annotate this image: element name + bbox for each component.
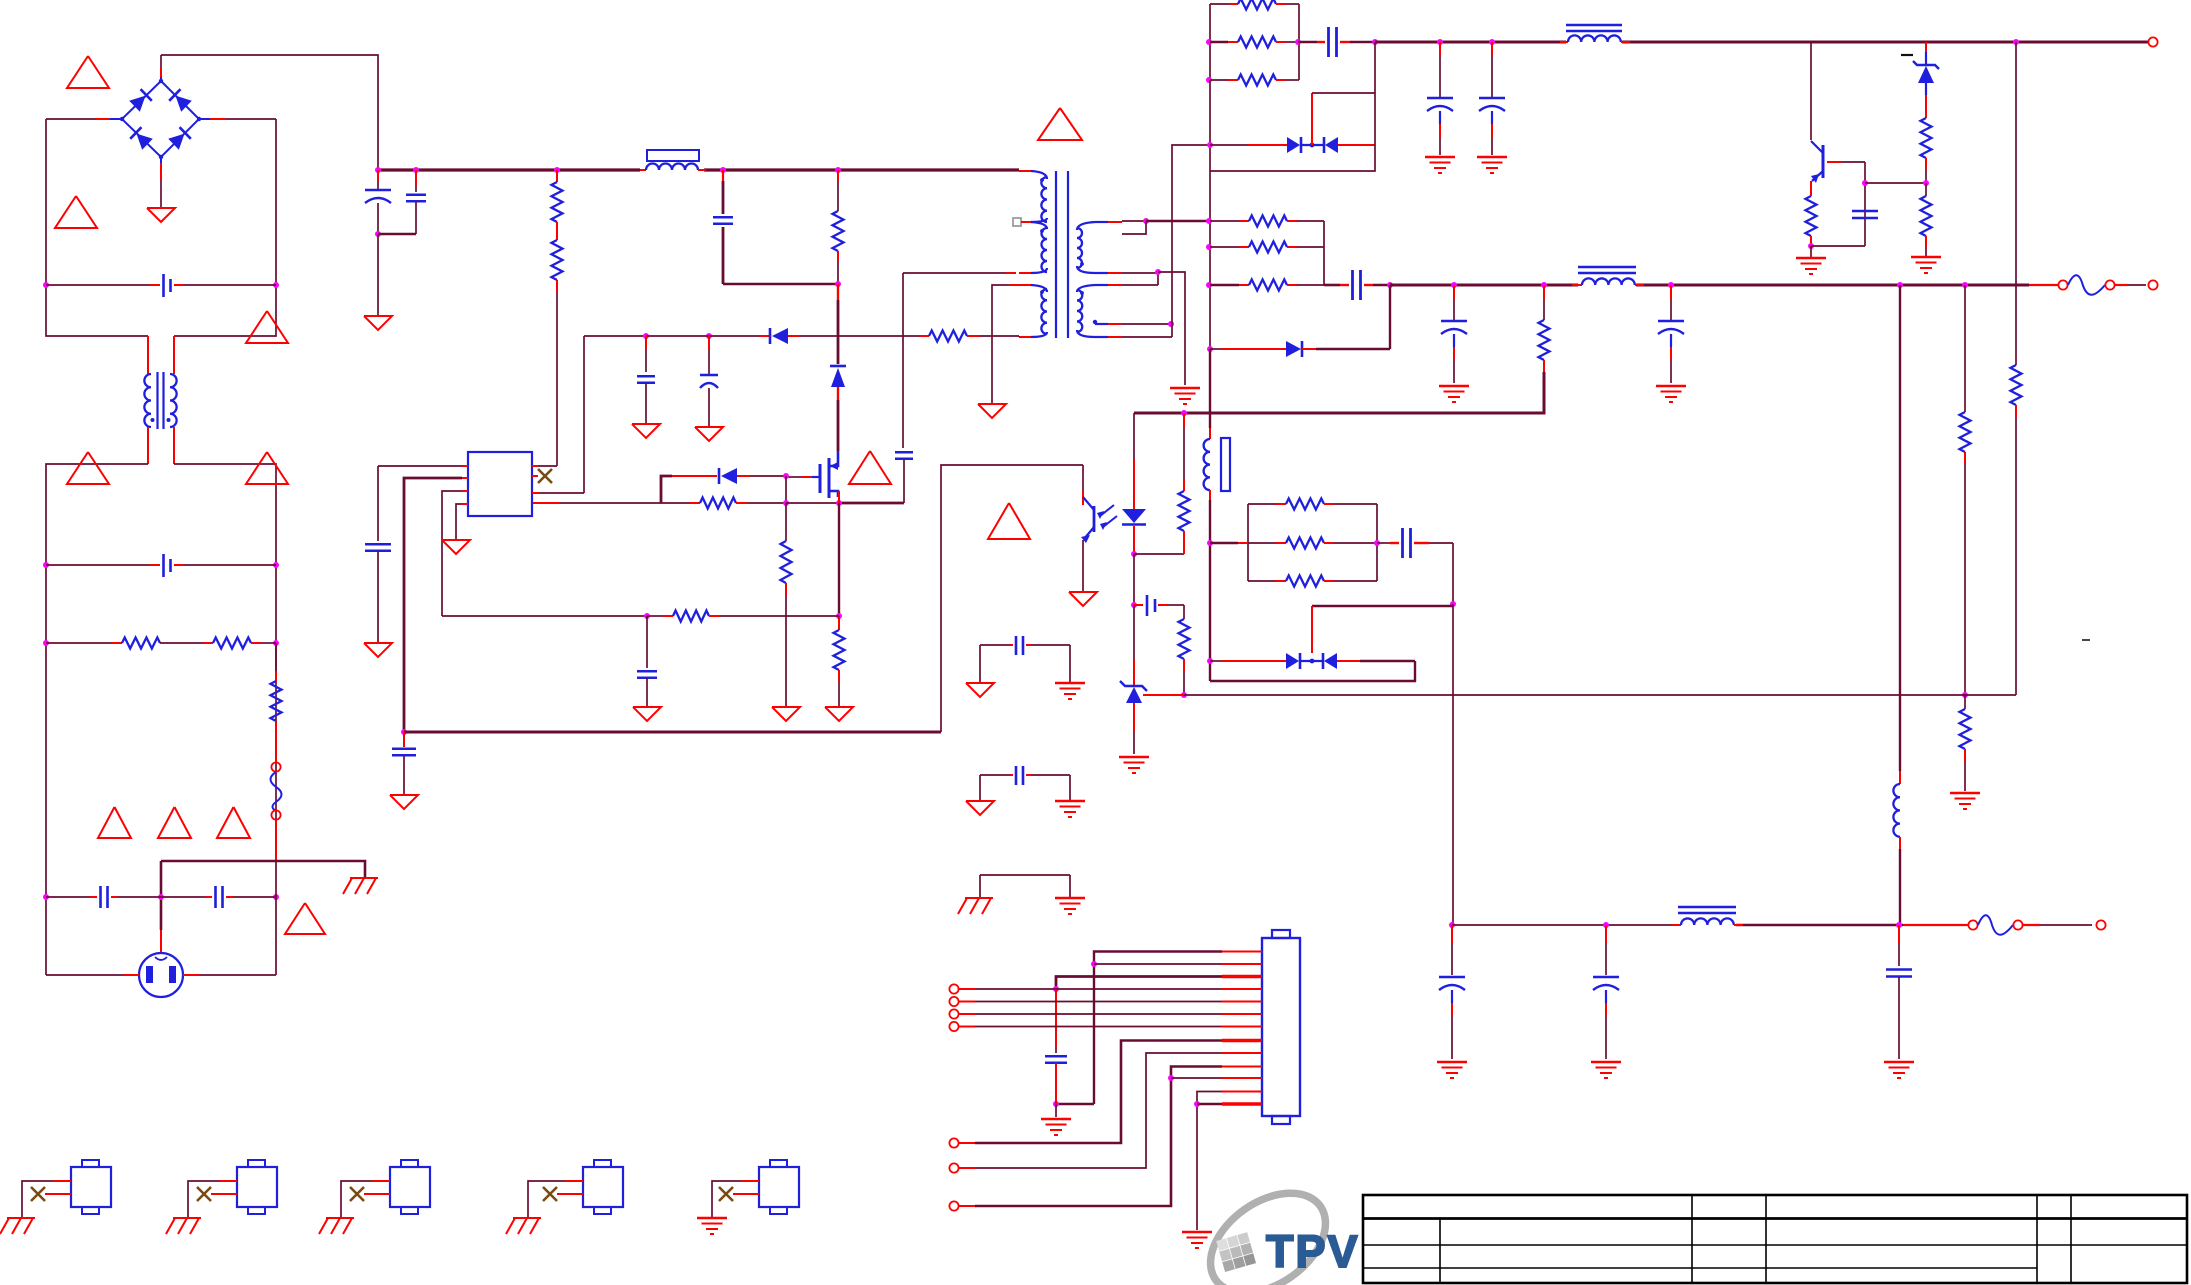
- diode D6 opto LED: [1122, 509, 1146, 523]
- transformer LF1 common-mode choke: [147, 336, 149, 374]
- wire base network: [1827, 161, 1842, 163]
- wire left rail upper: [46, 119, 148, 336]
- diode D4 dual clamp: [1210, 144, 1248, 146]
- transformer T1 secondary winding1: [1077, 222, 1095, 230]
- node aux cap1: [643, 333, 649, 339]
- wire output2 rail: [1390, 284, 1578, 287]
- node out2 cap2: [1668, 282, 1674, 288]
- wire U1 pin3 aux sense: [532, 492, 540, 494]
- wire tap to snubber leg: [1122, 323, 1171, 325]
- capacitor C5 fb filter: [646, 616, 648, 668]
- node primary gnd bus: [401, 729, 407, 735]
- node zener divider: [1923, 180, 1929, 186]
- wire pin13 net: [1197, 1103, 1222, 1106]
- jumper W1: [2029, 284, 2058, 286]
- capacitor C9 aux filter electrolytic: [708, 336, 710, 350]
- no-connect X mark U1 pin2: [532, 475, 538, 477]
- resistor R14 emitter: [1806, 196, 1817, 236]
- ground primary GND7: [390, 795, 418, 809]
- resistor R15: [1921, 118, 1932, 158]
- diode D5 rectifier: [1207, 346, 1213, 352]
- node out2 row2 left: [1206, 244, 1212, 250]
- node fb row: [644, 613, 650, 619]
- resistor R3 startup upper: [556, 170, 558, 182]
- wire trio1 right rail: [1298, 4, 1300, 80]
- ground primary GND13: [966, 683, 994, 697]
- node pin11 tie: [1168, 1075, 1174, 1081]
- node out2 cap: [1451, 282, 1457, 288]
- diode Z1 zener: [1925, 42, 1927, 52]
- inductor L3 output2: [1572, 284, 1582, 286]
- logo TPV cube: [1216, 1232, 1256, 1272]
- no-connect X lug: [733, 1193, 759, 1195]
- diode D7 dual: [1207, 658, 1213, 664]
- node trio3 mid left: [1207, 540, 1213, 546]
- wire pin5 net: [959, 1001, 975, 1003]
- terminal out10: [949, 1201, 958, 1210]
- warning triangle 1: [67, 56, 109, 88]
- mounting lug: [237, 1167, 277, 1207]
- node bulk cap junction: [375, 231, 381, 237]
- warning triangle 12: [988, 503, 1030, 539]
- resistor R18: [1210, 220, 1239, 222]
- capacitor CY2: [161, 896, 205, 898]
- capacitor C22 decouple pair1: [980, 644, 1010, 646]
- node gnd cap bottom: [1053, 1101, 1059, 1107]
- ground secondary GNDS2: [1425, 156, 1455, 159]
- mounting lug: [71, 1167, 111, 1207]
- ground secondary GNDS5: [1911, 256, 1941, 259]
- transformer T1 core: [1055, 171, 1057, 338]
- wire output1 rail: [1375, 41, 1566, 44]
- wire U1 pin5: [462, 503, 468, 505]
- ground secondary GNDS9: [1119, 756, 1149, 759]
- wire gnd tie: [980, 874, 1070, 876]
- resistor R1 discharge: [46, 642, 112, 644]
- warning triangle 8: [217, 807, 250, 838]
- optocoupler light arrows: [1100, 505, 1114, 516]
- node trio3 mid right: [1374, 540, 1380, 546]
- wire source sense: [838, 491, 840, 503]
- node gate res: [783, 500, 789, 506]
- wire right rail choke return: [174, 464, 276, 861]
- node snubber-drain: [835, 281, 841, 287]
- transistor Q2: [1822, 145, 1825, 178]
- terminal output2: [2148, 280, 2157, 289]
- capacitor C12 output1: [1491, 42, 1493, 56]
- capacitor C21 output3: [1898, 925, 1900, 943]
- capacitor CY1: [46, 896, 90, 898]
- transformer T1 primary winding: [1019, 170, 1031, 172]
- ground secondary GNDS14: [1055, 800, 1085, 803]
- wire primary gnd bus: [404, 731, 941, 734]
- transformer T1 secondary winding2: [1077, 285, 1095, 292]
- capacitor C18 series: [1377, 542, 1390, 544]
- wire bulk cap bottom: [378, 233, 416, 236]
- warning triangle 2: [55, 196, 97, 228]
- wire bridge AC right: [199, 118, 210, 120]
- wire U1 pin7 GND bus: [462, 477, 468, 479]
- wire bridge minus stem: [160, 157, 162, 163]
- node out1 tap tie: [1143, 218, 1149, 224]
- capacitor C10 series: [1298, 41, 1317, 44]
- resistor R25 fb: [1183, 605, 1185, 619]
- terminal output1: [2147, 41, 2149, 43]
- ground secondary GNDS1: [1170, 387, 1200, 390]
- node out1 cap2: [1489, 39, 1495, 45]
- ground secondary GNDS7: [1656, 385, 1686, 388]
- wire inductor leg: [1209, 349, 1211, 428]
- ground chassis main: [350, 877, 378, 879]
- jumper W2: [1903, 924, 1968, 926]
- wire gate node: [785, 476, 787, 503]
- wire snubber leg: [1172, 145, 1210, 337]
- resistor R26: [1248, 503, 1276, 505]
- node out2 drop1: [1897, 282, 1903, 288]
- node trio1 row2 right: [1295, 39, 1301, 45]
- transformer T1 aux winding: [1031, 222, 1047, 229]
- wire to primary ground: [377, 234, 379, 316]
- wire left rail choke return: [46, 464, 148, 975]
- inductor L4: [1899, 771, 1901, 784]
- node plug top: [158, 894, 164, 900]
- ground chassis lug: [326, 1217, 354, 1219]
- wire fb line: [1143, 694, 1184, 696]
- capacitor C14 series: [1324, 284, 1340, 287]
- ground primary GND12: [1069, 592, 1097, 606]
- wire trio1 left rail: [1209, 4, 1211, 80]
- capacitor C8 aux filter: [645, 336, 647, 350]
- op-amp U1 PWM controller: [468, 452, 532, 516]
- ground primary GND8: [442, 540, 470, 554]
- resistor R9 feedback: [647, 615, 663, 617]
- node sync: [1450, 601, 1456, 607]
- node emitter junction: [1808, 243, 1814, 249]
- bridge rectifier BD1: [122, 81, 199, 157]
- wire opto LED anode: [1133, 413, 1135, 430]
- capacitor CX2: [46, 564, 150, 566]
- wire gnd stem: [1055, 1104, 1057, 1117]
- wire plug left lead: [124, 974, 139, 976]
- wire trio2 right rail: [1323, 221, 1325, 285]
- fuse F1 with terminals: [271, 762, 280, 771]
- wire trio3 rails: [1247, 504, 1249, 581]
- resistor R22: [1960, 412, 1971, 452]
- resistor R28: [1248, 580, 1276, 582]
- capacitor C19 output3: [1451, 925, 1453, 943]
- resistor R17: [2011, 365, 2022, 405]
- diode D3 aux: [760, 335, 770, 337]
- node trio1 row3 left: [1206, 77, 1212, 83]
- terminal sense4: [949, 1022, 958, 1031]
- ground primary GND10: [695, 427, 723, 441]
- wire U1 pin1 to startup: [532, 465, 538, 467]
- ground secondary GNDS12: [1884, 1061, 1914, 1064]
- resistor RT1 inrush NTC: [275, 643, 277, 671]
- node bus snubber cap: [720, 167, 726, 173]
- no-connect X lug: [364, 1193, 390, 1195]
- wire secondary leg: [1209, 171, 1211, 349]
- diode D1 clamp: [837, 284, 839, 300]
- wire clamp loop: [1210, 42, 1375, 171]
- node left rail row1: [43, 282, 49, 288]
- ground secondary GNDS6: [1439, 385, 1469, 388]
- node bus cap2: [413, 167, 419, 173]
- wire sync vertical: [1452, 604, 1454, 925]
- resistor R2 discharge: [204, 642, 213, 644]
- capacitor C2: [415, 170, 417, 186]
- wire snubber leg down: [1209, 80, 1211, 171]
- capacitor C4 aux: [902, 273, 904, 380]
- ground secondary GNDS13: [1055, 682, 1085, 685]
- wire out2 drop1: [1899, 285, 1901, 771]
- wire pin12 net: [1197, 1092, 1222, 1231]
- wire pin2 net: [1094, 963, 1222, 965]
- no-connect X lug: [45, 1193, 71, 1195]
- ground primary GND2: [364, 316, 392, 330]
- wire earth link: [161, 861, 365, 878]
- wire lug pin1: [372, 1180, 390, 1182]
- node pin2 tie: [1091, 961, 1097, 967]
- ground secondary GNDS16: [1041, 1118, 1071, 1121]
- connector J2 body: [1262, 938, 1300, 1116]
- wire lug pin1: [741, 1180, 759, 1182]
- transformer T1 secondary tap: [1093, 320, 1097, 324]
- ground secondary GNDS8: [1950, 792, 1980, 795]
- resistor R7 gate pulldown: [785, 503, 787, 541]
- polarity dash: [1901, 54, 1913, 56]
- ground chassis lug: [513, 1217, 541, 1219]
- capacitor C3 snubber: [722, 170, 724, 181]
- terminal out8: [949, 1138, 958, 1147]
- node right rail row4: [273, 894, 279, 900]
- wire out2 drop2: [1964, 285, 1966, 412]
- transformer T1 pin square: [1013, 218, 1021, 226]
- wire pin10 net: [975, 1067, 1222, 1207]
- wire lug pin1: [219, 1180, 237, 1182]
- wire LED cathode row: [1134, 553, 1184, 555]
- node left rail row4: [43, 894, 49, 900]
- resistor R10 aux: [919, 335, 929, 337]
- node out1 cap1: [1437, 39, 1443, 45]
- wire bleeder to fb bus: [1134, 372, 1544, 413]
- node gate row: [783, 473, 789, 479]
- node bus resistor stack: [554, 167, 560, 173]
- capacitor C23 decouple pair2: [980, 774, 1010, 776]
- node bus cap1: [375, 167, 381, 173]
- node pin4 tie: [1053, 986, 1059, 992]
- diode D2 gate: [661, 476, 672, 503]
- wire cap to sync node: [1452, 543, 1454, 604]
- ground primary GND11: [978, 404, 1006, 418]
- wire pin8 net: [975, 1041, 1222, 1144]
- inductor L5 with core: [1209, 428, 1211, 439]
- node rail1 sense: [2013, 39, 2019, 45]
- wire pin1 net: [1094, 952, 1222, 1105]
- node rail3 start: [1449, 922, 1455, 928]
- optocoupler U2 transistor: [941, 465, 1083, 732]
- wire aux row: [442, 615, 647, 617]
- resistor R16: [1925, 183, 1927, 196]
- node rail3 cap2: [1603, 922, 1609, 928]
- node right rail row2: [273, 562, 279, 568]
- wire U1 pin6 comp: [462, 490, 468, 492]
- node base divider: [1862, 180, 1868, 186]
- resistor R23: [1964, 695, 1966, 709]
- capacitor C6 vcc: [365, 543, 391, 546]
- resistor R24 LED bias: [1183, 413, 1185, 428]
- ground secondary GNDS17: [1182, 1231, 1212, 1234]
- connector J1 AC plug: [139, 953, 183, 997]
- warning triangle 9: [285, 903, 325, 934]
- polarity dash small: [2082, 639, 2090, 641]
- warning triangle 6: [98, 807, 131, 838]
- ground primary GND3: [772, 707, 800, 721]
- wire pin9 net: [975, 1053, 1222, 1168]
- wire base to zener node: [1865, 182, 1926, 184]
- wire startup to IC: [556, 291, 558, 466]
- capacitor CX1 line filter: [46, 284, 150, 286]
- wire sync bus: [1312, 605, 1453, 608]
- svg-text:TPV: TPV: [1266, 1226, 1360, 1277]
- ground secondary GNDS4: [1810, 246, 1812, 258]
- node left rail row3: [43, 640, 49, 646]
- wire plug right lead: [183, 974, 199, 976]
- resistor R8 sense: [838, 616, 840, 630]
- resistor R11: [1210, 3, 1238, 5]
- terminal output3: [2096, 920, 2105, 929]
- wire base cap return: [1811, 245, 1865, 247]
- wire output3 rail: [1452, 924, 1678, 926]
- wire bridge AC left: [110, 118, 122, 120]
- node sense row: [836, 613, 842, 619]
- no-connect X lug: [557, 1193, 583, 1195]
- warning triangle 5: [246, 452, 288, 484]
- capacitor C7: [403, 732, 405, 747]
- resistor R27: [1210, 542, 1238, 545]
- node fb bus: [1181, 410, 1187, 416]
- wire pin4 net: [959, 988, 975, 990]
- ground primary GND9: [632, 424, 660, 438]
- node out1 filter: [1372, 39, 1378, 45]
- wire HV bus: [378, 168, 640, 171]
- node trio1 row2 left: [1206, 39, 1212, 45]
- wire pin7 net: [959, 1026, 975, 1028]
- ground primary GND14: [966, 801, 994, 815]
- wire out1 tap tie: [1122, 221, 1146, 234]
- capacitor C20 output3: [1605, 925, 1607, 943]
- node tap junction: [1168, 321, 1174, 327]
- node right rail row1: [273, 282, 279, 288]
- terminal sense2: [949, 997, 958, 1006]
- capacitor C1 bulk electrolytic: [377, 170, 379, 182]
- node out2 filter: [1387, 282, 1393, 288]
- node LED cathode: [1131, 551, 1137, 557]
- wire rectifier up: [1389, 285, 1391, 349]
- inductor L1 bus filter: [640, 169, 646, 171]
- wire primary winding2 top: [1009, 284, 1019, 286]
- no-connect X lug: [211, 1193, 237, 1195]
- wire U1 pin8 VCC: [462, 465, 468, 467]
- ground chassis tie: [965, 897, 993, 899]
- wire pin6 net: [959, 1013, 975, 1015]
- wire secondary out1: [1122, 220, 1146, 222]
- wire plug top lead: [160, 861, 163, 930]
- ground secondary GNDS3: [1477, 156, 1507, 159]
- wire collector drop: [1810, 42, 1812, 140]
- node bus snubber res: [835, 167, 841, 173]
- node pin13 tie: [1194, 1101, 1200, 1107]
- capacitor C17 fb: [1133, 554, 1135, 605]
- title block table: [1363, 1195, 2187, 1283]
- warning triangle 11: [849, 451, 891, 484]
- wire pin3 net: [1056, 977, 1222, 990]
- wire right rail upper: [174, 119, 276, 336]
- resistor R21 bleeder: [1543, 285, 1545, 299]
- logo TPV swoosh: [1192, 1173, 1344, 1285]
- node out2 row1 left: [1206, 218, 1212, 224]
- wire pin11 net: [1171, 1077, 1222, 1079]
- connector J2 pins: [1222, 951, 1262, 953]
- warning triangle 10: [1038, 108, 1082, 140]
- transformer T1 primary winding2: [1019, 284, 1031, 286]
- capacitor C16 output2: [1670, 285, 1672, 299]
- node snubber row: [1207, 142, 1213, 148]
- node rail3 cap3: [1896, 922, 1902, 928]
- ground chassis lug: [7, 1217, 35, 1219]
- ground primary GND6: [364, 643, 392, 657]
- wire pin1 bottom: [1056, 1103, 1094, 1105]
- node left rail row2: [43, 562, 49, 568]
- wire dual diode loop: [1210, 661, 1415, 681]
- ground chassis lug: [173, 1217, 201, 1219]
- wire sense divider top: [2015, 42, 2017, 365]
- warning triangle 7: [158, 807, 191, 838]
- wire aux row mid: [646, 335, 709, 337]
- node out2 res: [1541, 282, 1547, 288]
- node secondary return: [1155, 269, 1161, 275]
- capacitor C15 output2: [1453, 285, 1455, 299]
- wire winding2 bottom: [1122, 336, 1172, 338]
- node aux cap2: [706, 333, 712, 339]
- wire snubber bottom: [723, 283, 838, 286]
- node out2 drop2: [1962, 282, 1968, 288]
- resistor R4 startup lower: [552, 240, 563, 280]
- inductor L6 output3: [1672, 924, 1681, 926]
- capacitor C11 output1: [1439, 42, 1441, 56]
- terminal sense1: [949, 984, 958, 993]
- warning triangle 4: [67, 452, 109, 484]
- resistor R20: [1210, 284, 1239, 287]
- ground secondary lug: [697, 1217, 727, 1220]
- resistor R12: [1210, 41, 1228, 44]
- wire AC line from bridge + to bus corner: [161, 55, 378, 170]
- wire sync drop: [1311, 606, 1313, 653]
- node fb line drop2: [1962, 692, 1968, 698]
- diode Z2 shunt regulator: [1133, 605, 1135, 640]
- node right rail row3: [273, 640, 279, 646]
- wire lug pin1: [53, 1180, 71, 1182]
- mounting lug: [759, 1167, 799, 1207]
- wire right rail to plug: [275, 861, 277, 975]
- node fb line start: [1181, 692, 1187, 698]
- wire clamp center tap: [1311, 93, 1313, 145]
- mounting lug: [583, 1167, 623, 1207]
- capacitor C24 gnd: [1055, 989, 1057, 1048]
- warning triangle 3: [246, 311, 288, 343]
- wire aux winding return: [1006, 272, 1016, 274]
- wire to secondary ground: [1158, 272, 1185, 385]
